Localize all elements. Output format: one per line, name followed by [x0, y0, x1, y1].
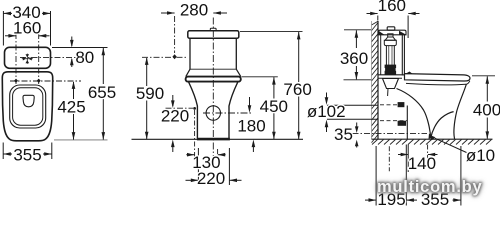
- tank bottom: [379, 74, 405, 76]
- fixing hole marker left: [14, 79, 18, 83]
- dim 340: [3, 11, 50, 46]
- tank (cistern) top view: [5, 47, 51, 68]
- fixing hole centerline (dash-dot): [353, 132, 428, 134]
- dim 140: [398, 145, 438, 173]
- flush valve mechanism: [384, 34, 396, 75]
- seat and cover slab: [405, 74, 471, 81]
- svg-text:355: 355: [13, 145, 41, 164]
- bowl back cone under tank: [383, 79, 399, 89]
- svg-text:400: 400: [473, 100, 500, 119]
- floor line right figure: [372, 138, 493, 140]
- flush button: [210, 28, 216, 31]
- tank back inner wall: [380, 35, 382, 75]
- bowl under-arch right branch: [431, 112, 454, 138]
- tank lid side: [379, 30, 407, 35]
- dim 760: [240, 32, 303, 140]
- dim 180: [248, 97, 256, 152]
- seat ring inner: [13, 88, 43, 125]
- svg-text:160: 160: [13, 19, 41, 38]
- flush knob: [387, 27, 395, 30]
- svg-text:220: 220: [197, 169, 225, 188]
- bowl interior back curve: [397, 89, 431, 139]
- dim 220 bottom: [186, 148, 242, 185]
- rim band: [186, 77, 241, 82]
- dim 425 line: [72, 81, 76, 139]
- dim 400: [472, 76, 495, 139]
- hole centerline right (dash-dot): [38, 33, 40, 84]
- centerline vertical (dash-dot): [212, 18, 214, 164]
- tank holes centerline horizontal (dash-dot): [20, 56, 76, 58]
- svg-text:280: 280: [180, 1, 208, 20]
- pedestal foot bottom: [197, 138, 230, 141]
- pedestal sides: [189, 82, 238, 139]
- tank bottom junction: [190, 68, 236, 70]
- tank front wall double line: [401, 35, 403, 76]
- svg-text:multicom.by: multicom.by: [377, 178, 483, 196]
- tank body front: [190, 38, 236, 69]
- floor line middle: [132, 138, 304, 140]
- tank side body: [379, 27, 407, 76]
- wall hatch band: [372, 21, 379, 142]
- bowl flare: [186, 69, 241, 76]
- dim 35 arrows: [355, 123, 359, 148]
- outlet pipe hidden bottom (dashed): [380, 120, 408, 122]
- bowl front profile: [454, 84, 467, 139]
- outlet pipe through wall bottom line: [327, 118, 378, 120]
- seat hinge: [406, 72, 413, 74]
- water spot: [23, 95, 34, 107]
- svg-text:80: 80: [75, 48, 94, 67]
- wall face line: [377, 21, 379, 139]
- dim 280: [161, 11, 227, 59]
- tank bowl junction line: [379, 77, 403, 79]
- svg-text:360: 360: [340, 49, 368, 68]
- pedestal back line: [406, 106, 408, 140]
- bowl rim front under seat: [406, 81, 470, 85]
- dim 655 line: [102, 48, 106, 140]
- bottom reference line (gray): [54, 139, 108, 141]
- outlet pipe hidden top (dashed): [380, 104, 406, 106]
- centre mark cross in tank: [22, 54, 33, 64]
- dim 220 left: [166, 95, 194, 152]
- svg-text:425: 425: [57, 98, 85, 117]
- svg-text:35: 35: [334, 125, 353, 144]
- svg-text:590: 590: [136, 84, 164, 103]
- svg-text:220: 220: [161, 107, 189, 126]
- seat holes centerline horizontal (dash-dot): [10, 80, 81, 82]
- wall back faint line: [371, 21, 373, 139]
- vertical dash-dot below floor at pipe axis: [388, 146, 390, 171]
- dim 160 right figure: [367, 12, 420, 38]
- svg-text:ø102: ø102: [307, 102, 346, 121]
- floor fixing marker: [429, 134, 435, 139]
- svg-text:450: 450: [260, 97, 288, 116]
- cistern lid: [188, 31, 239, 38]
- dim 450: [242, 77, 278, 140]
- dim o102 arrows: [325, 93, 329, 133]
- pipe connector upper: [398, 102, 405, 107]
- dim 80: [52, 37, 108, 68]
- svg-text:ø10: ø10: [466, 146, 495, 165]
- svg-text:180: 180: [237, 117, 265, 136]
- hole centerline left (dash-dot): [15, 33, 17, 84]
- dim 130: [186, 107, 225, 161]
- svg-text:140: 140: [408, 154, 436, 173]
- seat ring outer: [10, 85, 46, 128]
- svg-text:160: 160: [378, 0, 406, 15]
- dim 195 / 355 row: [365, 145, 461, 206]
- dim o10 leader: [429, 135, 466, 153]
- dim 355: [3, 143, 52, 160]
- bowl outer outline: [2, 72, 52, 141]
- dim 360: [344, 30, 372, 80]
- floor hatching: [372, 140, 492, 145]
- svg-text:760: 760: [283, 80, 311, 99]
- drain crosshair horizontal (dash-dot): [203, 112, 253, 114]
- outlet pipe through wall top line: [327, 104, 378, 106]
- svg-text:655: 655: [88, 83, 116, 102]
- dim 160: [5, 34, 50, 38]
- pipe connector lower: [398, 121, 407, 126]
- watermark multicom.by: [377, 178, 483, 196]
- drain circle: [206, 106, 220, 120]
- dim 590: [142, 57, 187, 139]
- fixing hole marker right: [37, 79, 41, 83]
